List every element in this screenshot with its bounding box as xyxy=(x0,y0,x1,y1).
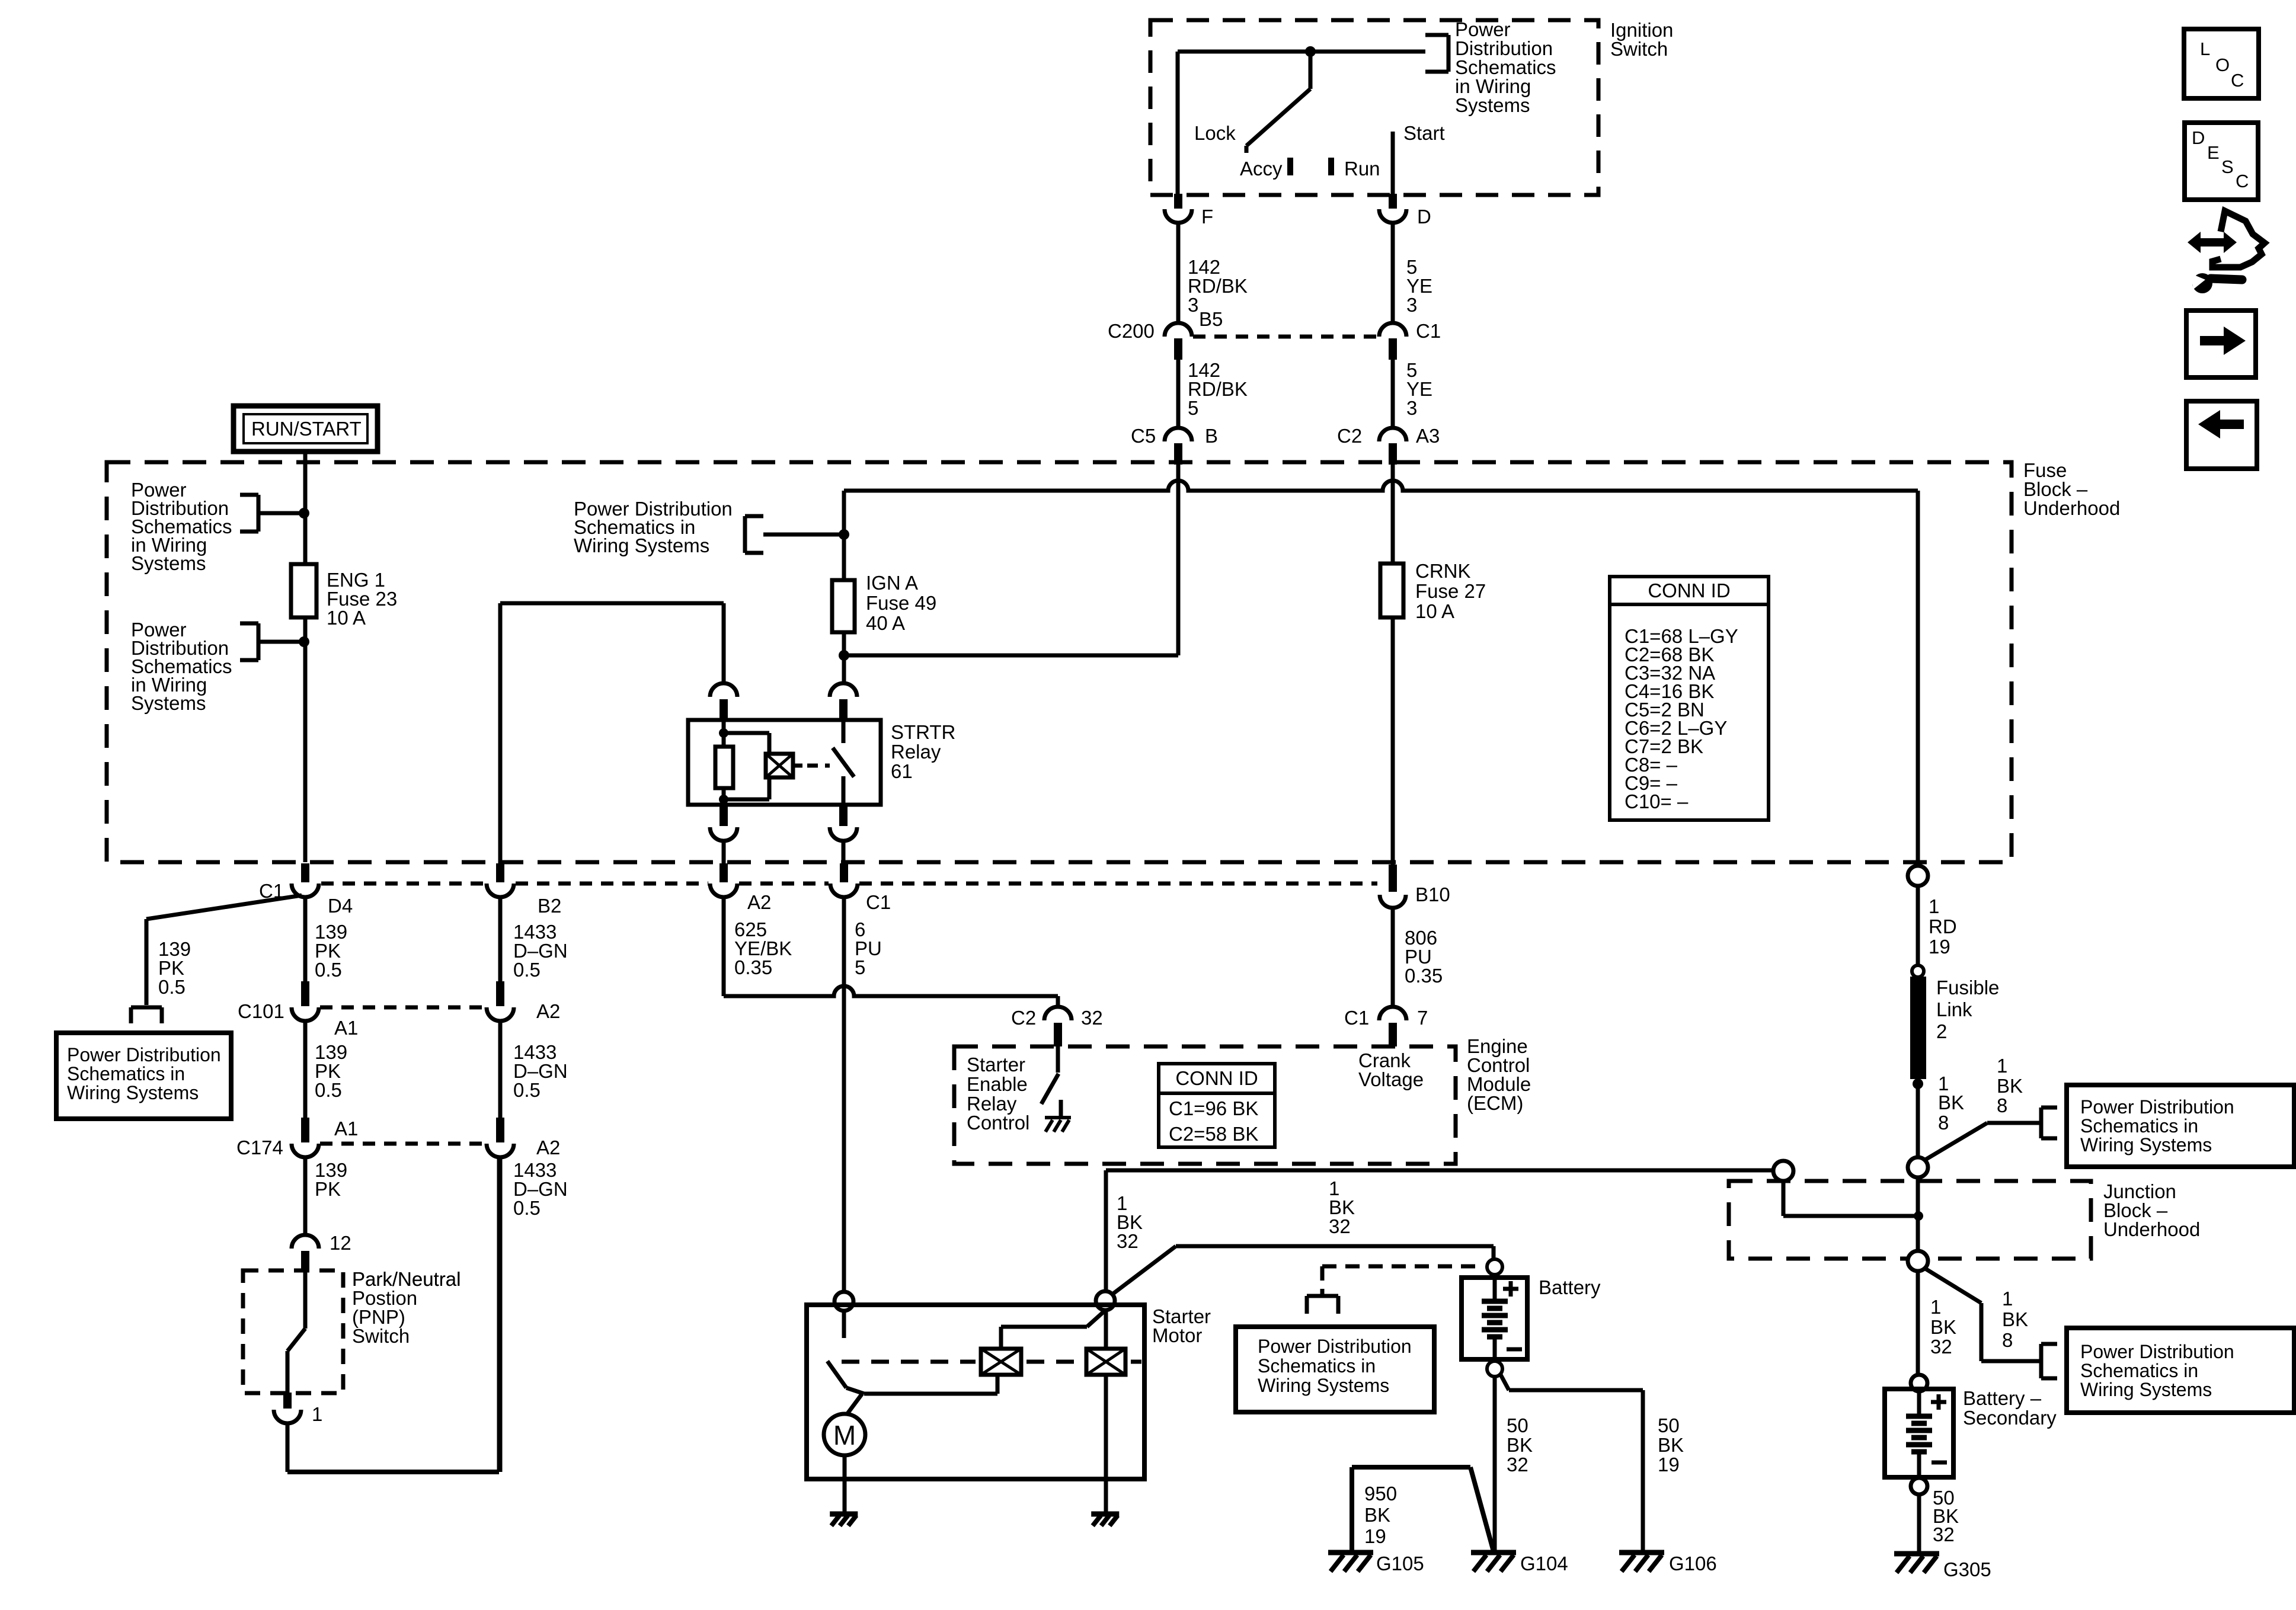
svg-text:61: 61 xyxy=(891,760,913,782)
svg-text:Run: Run xyxy=(1344,158,1380,180)
svg-text:Battery: Battery xyxy=(1539,1276,1601,1298)
svg-text:C: C xyxy=(2231,70,2244,91)
svg-text:Voltage: Voltage xyxy=(1358,1068,1424,1090)
svg-text:G105: G105 xyxy=(1376,1553,1424,1574)
svg-text:1: 1 xyxy=(1929,895,1939,917)
svg-text:Schematics in: Schematics in xyxy=(67,1063,185,1084)
svg-text:PK: PK xyxy=(315,1178,341,1200)
svg-text:BK: BK xyxy=(1930,1316,1956,1338)
svg-text:10 A: 10 A xyxy=(327,607,366,629)
svg-text:0.5: 0.5 xyxy=(513,1079,541,1101)
svg-text:STRTR: STRTR xyxy=(891,721,955,743)
svg-text:IGN A: IGN A xyxy=(866,572,918,594)
svg-text:0.35: 0.35 xyxy=(1405,965,1443,987)
svg-text:E: E xyxy=(2207,142,2220,163)
svg-text:CONN ID: CONN ID xyxy=(1175,1067,1258,1089)
svg-text:A1: A1 xyxy=(334,1017,358,1039)
svg-text:D: D xyxy=(2192,127,2205,148)
svg-text:Wiring Systems: Wiring Systems xyxy=(2080,1134,2212,1156)
svg-text:8: 8 xyxy=(2002,1329,2013,1351)
svg-text:G106: G106 xyxy=(1669,1553,1717,1574)
svg-text:Wiring Systems: Wiring Systems xyxy=(67,1082,199,1103)
svg-text:B5: B5 xyxy=(1199,308,1223,330)
svg-text:C1: C1 xyxy=(866,891,891,913)
svg-text:M: M xyxy=(833,1420,856,1451)
svg-text:Starter: Starter xyxy=(967,1054,1025,1076)
svg-text:Wiring Systems: Wiring Systems xyxy=(1258,1375,1389,1396)
svg-text:Power Distribution: Power Distribution xyxy=(2080,1096,2234,1118)
svg-text:Motor: Motor xyxy=(1152,1324,1202,1346)
svg-text:Systems: Systems xyxy=(131,692,206,714)
svg-text:0.5: 0.5 xyxy=(315,959,342,981)
svg-text:32: 32 xyxy=(1933,1523,1955,1545)
svg-text:Underhood: Underhood xyxy=(2103,1218,2200,1240)
svg-text:C: C xyxy=(2236,171,2249,191)
svg-text:50: 50 xyxy=(1658,1414,1680,1436)
svg-text:19: 19 xyxy=(1658,1454,1680,1475)
svg-text:B2: B2 xyxy=(538,895,561,917)
svg-text:8: 8 xyxy=(1997,1094,2007,1116)
svg-text:10 A: 10 A xyxy=(1415,600,1454,622)
svg-text:1: 1 xyxy=(312,1403,322,1425)
svg-text:Park/Neutral: Park/Neutral xyxy=(352,1268,461,1290)
svg-text:C5: C5 xyxy=(1131,425,1156,447)
svg-text:Accy: Accy xyxy=(1240,158,1283,180)
svg-text:Switch: Switch xyxy=(1610,38,1668,60)
svg-text:32: 32 xyxy=(1117,1230,1139,1252)
svg-text:5: 5 xyxy=(1188,397,1198,419)
svg-text:2: 2 xyxy=(1936,1020,1947,1042)
svg-text:G104: G104 xyxy=(1520,1553,1568,1574)
svg-text:C101: C101 xyxy=(238,1000,284,1022)
svg-text:Schematics in: Schematics in xyxy=(2080,1115,2198,1137)
svg-text:C200: C200 xyxy=(1108,320,1155,342)
svg-text:Fuse 27: Fuse 27 xyxy=(1415,580,1486,602)
svg-text:Secondary: Secondary xyxy=(1963,1407,2057,1429)
svg-text:Battery –: Battery – xyxy=(1963,1387,2042,1409)
svg-text:C10= –: C10= – xyxy=(1625,790,1689,812)
svg-text:(ECM): (ECM) xyxy=(1467,1092,1523,1114)
svg-text:C1: C1 xyxy=(1344,1007,1369,1029)
svg-text:A2: A2 xyxy=(536,1000,560,1022)
svg-text:Lock: Lock xyxy=(1194,122,1236,144)
svg-text:3: 3 xyxy=(1188,294,1198,316)
svg-text:C2: C2 xyxy=(1337,425,1362,447)
svg-text:Systems: Systems xyxy=(1455,94,1530,116)
svg-text:19: 19 xyxy=(1364,1525,1386,1547)
svg-text:1: 1 xyxy=(1997,1055,2007,1077)
svg-text:Wiring Systems: Wiring Systems xyxy=(574,534,709,556)
svg-text:BK: BK xyxy=(1507,1434,1533,1456)
svg-text:7: 7 xyxy=(1417,1007,1428,1029)
svg-text:3: 3 xyxy=(1406,294,1417,316)
svg-text:0.5: 0.5 xyxy=(513,1197,541,1219)
svg-text:3: 3 xyxy=(1406,397,1417,419)
svg-text:Link: Link xyxy=(1936,998,1972,1020)
svg-text:1: 1 xyxy=(2002,1288,2013,1310)
svg-text:BK: BK xyxy=(1658,1434,1684,1456)
svg-text:RUN/START: RUN/START xyxy=(251,418,362,440)
svg-text:A2: A2 xyxy=(747,891,771,913)
svg-text:Underhood: Underhood xyxy=(2023,497,2120,519)
svg-text:32: 32 xyxy=(1930,1336,1952,1358)
svg-text:Power Distribution: Power Distribution xyxy=(2080,1341,2234,1362)
svg-text:C2: C2 xyxy=(1011,1007,1036,1029)
svg-text:32: 32 xyxy=(1507,1454,1528,1475)
svg-text:Power Distribution: Power Distribution xyxy=(67,1044,221,1065)
svg-text:BK: BK xyxy=(1364,1504,1390,1526)
svg-text:5: 5 xyxy=(855,956,865,978)
svg-text:A2: A2 xyxy=(536,1137,560,1158)
svg-text:CRNK: CRNK xyxy=(1415,560,1471,582)
svg-text:Relay: Relay xyxy=(891,741,941,763)
svg-text:Fusible: Fusible xyxy=(1936,977,1999,998)
svg-text:BK: BK xyxy=(1938,1092,1964,1113)
svg-text:0.35: 0.35 xyxy=(734,956,772,978)
svg-text:0.5: 0.5 xyxy=(315,1079,342,1101)
svg-text:40 A: 40 A xyxy=(866,612,905,634)
svg-text:B10: B10 xyxy=(1415,884,1450,905)
svg-text:L: L xyxy=(2200,39,2210,59)
svg-text:32: 32 xyxy=(1329,1215,1351,1237)
svg-text:D4: D4 xyxy=(328,895,353,917)
svg-text:Fuse 49: Fuse 49 xyxy=(866,592,936,614)
svg-text:D: D xyxy=(1417,206,1431,228)
svg-text:1: 1 xyxy=(1930,1296,1941,1318)
svg-text:Schematics in: Schematics in xyxy=(1258,1355,1376,1377)
svg-text:CONN ID: CONN ID xyxy=(1648,580,1730,601)
svg-text:C174: C174 xyxy=(236,1137,283,1158)
svg-text:RD: RD xyxy=(1929,916,1957,937)
svg-text:C1: C1 xyxy=(1416,320,1441,342)
svg-text:G305: G305 xyxy=(1943,1558,1991,1580)
svg-text:A3: A3 xyxy=(1416,425,1440,447)
svg-text:50: 50 xyxy=(1507,1414,1528,1436)
svg-text:Schematics in: Schematics in xyxy=(2080,1360,2198,1381)
svg-text:Switch: Switch xyxy=(352,1325,410,1347)
svg-text:S: S xyxy=(2221,156,2234,177)
svg-text:12: 12 xyxy=(330,1232,351,1254)
svg-text:950: 950 xyxy=(1364,1483,1397,1505)
svg-text:8: 8 xyxy=(1938,1112,1949,1134)
svg-text:A1: A1 xyxy=(334,1118,358,1140)
svg-text:Start: Start xyxy=(1403,122,1445,144)
svg-text:Systems: Systems xyxy=(131,552,206,574)
svg-text:0.5: 0.5 xyxy=(513,959,541,981)
svg-text:B: B xyxy=(1205,425,1218,447)
svg-text:BK: BK xyxy=(1997,1075,2023,1097)
svg-text:Control: Control xyxy=(967,1112,1029,1134)
svg-text:32: 32 xyxy=(1081,1007,1103,1029)
svg-text:Enable: Enable xyxy=(967,1073,1028,1095)
svg-text:19: 19 xyxy=(1929,936,1950,958)
svg-text:BK: BK xyxy=(2002,1308,2028,1330)
svg-text:C1=96 BK: C1=96 BK xyxy=(1169,1097,1258,1119)
svg-text:Power Distribution: Power Distribution xyxy=(1258,1336,1412,1357)
svg-text:0.5: 0.5 xyxy=(158,976,186,998)
svg-text:C2=58 BK: C2=58 BK xyxy=(1169,1123,1258,1145)
svg-text:F: F xyxy=(1201,206,1213,228)
svg-text:Wiring Systems: Wiring Systems xyxy=(2080,1379,2212,1400)
svg-text:O: O xyxy=(2215,55,2230,75)
